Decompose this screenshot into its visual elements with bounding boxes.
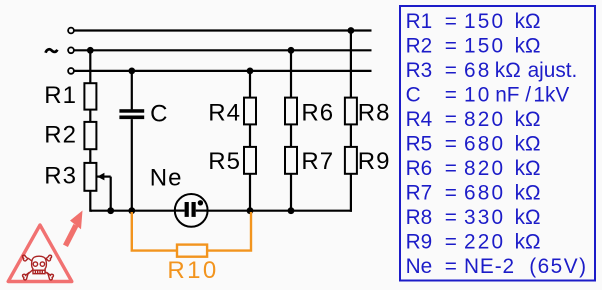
node junction R7 / bottom rail <box>288 207 295 214</box>
wire R8 to R9 <box>350 124 352 147</box>
node junction on bus 1 (R8 column) <box>348 27 355 34</box>
wire bus line 3 <box>74 70 371 72</box>
resistor R9 <box>345 147 357 174</box>
wire C to bottom rail <box>131 119 133 211</box>
wire R3 bottom to bottom rail <box>90 191 92 211</box>
svg-text:R5: R5 <box>208 148 241 175</box>
skull and crossbones <box>22 255 53 280</box>
wire bus3 to C <box>131 71 133 110</box>
svg-text:R1: R1 <box>44 82 77 109</box>
svg-text:R4: R4 <box>208 99 241 126</box>
R3 wiper arrow <box>97 173 111 211</box>
svg-text:R8=330kΩ: R8=330kΩ <box>406 206 541 229</box>
resistor R2 <box>84 122 96 149</box>
wire R1 to R2 <box>89 110 91 122</box>
svg-text:R9: R9 <box>358 148 391 175</box>
svg-text:R3: R3 <box>44 163 77 190</box>
node junction wiper / bottom rail <box>107 207 114 214</box>
wire R10 right lead (orange) <box>207 212 251 251</box>
resistor R3 (adjustable) <box>84 163 96 191</box>
svg-text:R2=150kΩ: R2=150kΩ <box>406 35 541 58</box>
resistor R8 <box>345 98 357 125</box>
svg-text:R10: R10 <box>167 257 218 284</box>
resistor R4 <box>244 98 256 125</box>
svg-text:R5=680kΩ: R5=680kΩ <box>406 133 541 156</box>
node junction on bus 2 (R1 column) <box>87 47 94 54</box>
crossbone 2 <box>28 258 46 274</box>
svg-text:R1=150kΩ: R1=150kΩ <box>406 10 541 33</box>
wire R4 to R5 <box>249 124 251 147</box>
capacitor C <box>119 109 144 119</box>
node junction on bus 2 (R6 column) <box>288 47 295 54</box>
wire R2 to R3 <box>89 149 91 163</box>
node junction R5 / bottom rail <box>247 207 254 214</box>
wire bus2 to R6 <box>290 50 292 98</box>
svg-text:R3=68kΩajust.: R3=68kΩajust. <box>406 59 578 82</box>
resistor R6 <box>285 98 297 125</box>
wire R7 to bottom rail <box>290 174 292 211</box>
node junction on bus 3 (R4 column) <box>247 68 254 75</box>
svg-text:R8: R8 <box>358 99 391 126</box>
wire R6 to R7 <box>290 124 292 147</box>
AC symbol ~ <box>46 49 58 52</box>
crossbone 1 <box>28 258 48 274</box>
svg-text:R4=820kΩ: R4=820kΩ <box>406 108 541 131</box>
neon lamp Ne <box>175 194 208 227</box>
terminal T1 (phase 1) <box>68 28 74 34</box>
wire R5 to bottom rail <box>249 174 251 211</box>
terminal T3 (phase 3) <box>68 68 74 74</box>
wire bus2 to R1 <box>89 50 91 84</box>
svg-text:Ne: Ne <box>150 165 183 192</box>
wire bus1 to R8 <box>350 31 352 99</box>
svg-text:R9=220kΩ: R9=220kΩ <box>406 231 541 254</box>
values box <box>400 6 595 281</box>
node junction C / bottom rail <box>128 207 135 214</box>
wire bottom rail left segment <box>90 210 175 212</box>
svg-text:R7=680kΩ: R7=680kΩ <box>406 182 541 205</box>
svg-text:R6=820kΩ: R6=820kΩ <box>406 157 541 180</box>
danger triangle <box>8 225 72 282</box>
node junction on bus 3 (C column) <box>128 68 135 75</box>
wire bus line 1 <box>74 29 371 31</box>
resistor R10 <box>177 245 207 257</box>
eyes <box>33 262 37 266</box>
mouth with teeth <box>33 270 45 274</box>
svg-text:R6: R6 <box>301 99 334 126</box>
wire R9 to bottom rail <box>350 174 352 212</box>
svg-text:R2: R2 <box>44 122 77 149</box>
wire R10 left lead (orange) <box>132 212 177 251</box>
wire bus3 to R4 <box>249 71 251 98</box>
skull head <box>32 256 47 270</box>
terminal T2 (phase 2) <box>68 47 74 53</box>
resistor R5 <box>244 147 256 174</box>
svg-text:C: C <box>150 101 168 128</box>
svg-text:R7: R7 <box>301 148 334 175</box>
wire bottom rail right segment <box>207 210 352 212</box>
resistor R7 <box>285 147 297 174</box>
resistor R1 <box>84 83 96 109</box>
wire bus line 2 <box>74 49 371 51</box>
red arrow pointing to R3 <box>63 211 83 248</box>
